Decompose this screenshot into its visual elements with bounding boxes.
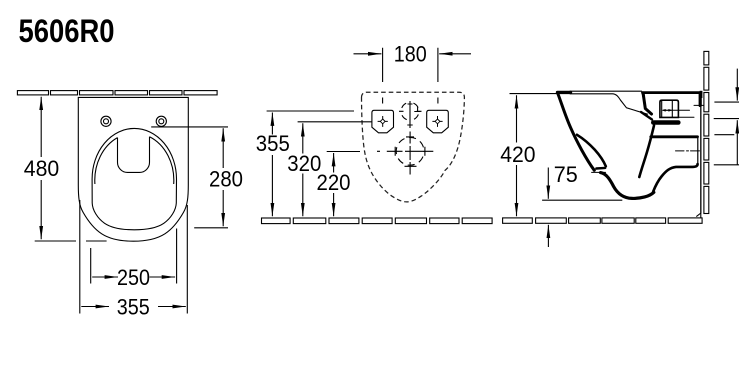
chamber floor bar thick <box>653 120 678 125</box>
top-left corner thick <box>558 91 571 94</box>
fixing hole left (rear) <box>372 110 394 133</box>
drain centerlines <box>377 132 433 175</box>
dimension 420 line <box>516 95 518 216</box>
floor tile strip (right view) <box>503 218 703 223</box>
inlet center line <box>663 109 690 111</box>
dimension 480 bottom tick <box>35 240 107 242</box>
drain circle (dashed) <box>396 137 424 165</box>
floor tile strip (middle) <box>262 218 493 224</box>
svg-text:5606R0: 5606R0 <box>19 13 115 49</box>
dimension 180 extension lines <box>383 48 438 104</box>
flush shroud U shape <box>118 137 150 173</box>
wall leg thick <box>699 94 702 106</box>
left leg thick <box>643 95 651 115</box>
inlet mini arrows <box>665 109 671 111</box>
wall surface line <box>700 97 702 218</box>
trap bottom thick <box>601 173 654 199</box>
front edge thick <box>558 94 595 171</box>
WC rear silhouette (dashed) <box>362 92 465 202</box>
svg-text:355: 355 <box>256 131 290 156</box>
datum symbol <box>414 107 420 111</box>
rim channel inner edge thick <box>577 135 606 167</box>
dimension 480 line <box>40 97 42 240</box>
dimension 320 middle tick <box>298 121 372 123</box>
dimension 220 middle tick <box>327 151 360 153</box>
dimension 75 line upper <box>547 168 549 199</box>
inlet socket inner line <box>662 101 673 117</box>
svg-text:420: 420 <box>500 142 535 167</box>
dimension 355 extension lines <box>80 200 188 314</box>
svg-text:220: 220 <box>317 170 351 195</box>
top bar to wall thick <box>643 91 702 94</box>
dimension 280 top tick <box>151 126 228 128</box>
svg-text:280: 280 <box>209 167 243 192</box>
dimension 355 middle tick <box>267 110 354 112</box>
svg-text:75: 75 <box>554 162 578 187</box>
dimension 355 middle line <box>271 113 273 217</box>
water supply circle (dashed) <box>401 102 419 120</box>
svg-text:250: 250 <box>117 265 150 290</box>
svg-text:480: 480 <box>24 156 60 181</box>
dimension 220 middle line <box>333 153 335 216</box>
supply centerlines <box>399 101 422 128</box>
dimension 75 line lower <box>547 225 549 247</box>
dimension 250 extension lines <box>91 229 177 284</box>
dimension 420 tick <box>510 93 558 95</box>
drain center dash-dot <box>676 150 700 152</box>
wall tile strip (top view wall) <box>17 91 217 95</box>
bowl inner oval (clipped at flush shroud) <box>95 137 174 184</box>
dimension 75 tick <box>542 199 622 201</box>
fixing hole right cross <box>432 116 442 127</box>
dimension 180 arrows <box>354 53 382 55</box>
svg-text:355: 355 <box>117 295 150 320</box>
right edge up arrow <box>736 120 738 164</box>
mounting hole left (top view) <box>101 116 111 126</box>
dimension 320 middle line <box>302 123 304 216</box>
dimension 355 line <box>81 306 186 308</box>
ceramic back edge at wall <box>696 106 701 217</box>
drain bottom and trap right rise thick <box>653 164 697 192</box>
dimension 250 line <box>92 276 175 278</box>
svg-text:180: 180 <box>394 42 427 67</box>
rim notch top bar <box>596 167 605 170</box>
socket bottom extension line <box>679 116 695 118</box>
right edge tick 3 <box>714 134 734 136</box>
dimension 280 line <box>222 128 224 226</box>
fixing hole right (rear) <box>427 110 449 133</box>
fixing hole left cross <box>378 116 388 127</box>
inlet socket <box>660 100 679 117</box>
drain top bar thick <box>651 135 698 138</box>
wall tile strip (right view) <box>704 51 709 213</box>
right edge tick 1 <box>714 101 739 103</box>
right edge down arrow <box>736 69 738 101</box>
right edge tick 2 <box>714 118 739 120</box>
WC body outline (top view) <box>78 97 188 241</box>
seat top edge thin lines <box>570 90 642 92</box>
rim notch bottom tick <box>592 171 606 173</box>
mounting hole right (top view) <box>156 116 166 126</box>
drain right edge <box>697 138 699 164</box>
seat outer oval <box>92 128 176 229</box>
bowl interior S-line <box>639 126 654 178</box>
right edge tick 4 <box>714 164 739 166</box>
wall leg bottom line <box>694 104 704 106</box>
dimension 280 bottom tick <box>194 227 228 229</box>
